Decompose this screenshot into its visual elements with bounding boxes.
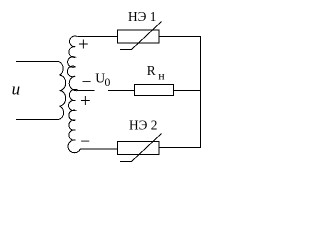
resistor Rn body: [135, 85, 174, 96]
wire NE1 to right bus: [159, 36, 201, 38]
thermistor NE1 foot: [120, 49, 132, 51]
svg-text:НЭ 2: НЭ 2: [129, 117, 157, 132]
wire Rn to right bus: [174, 90, 201, 92]
svg-text:−: −: [82, 71, 92, 91]
wire primary bottom lead: [16, 119, 59, 121]
wire top (secondary to NE1): [78, 36, 118, 38]
svg-text:+: +: [80, 91, 91, 112]
svg-text:0: 0: [105, 76, 111, 89]
thermistor NE1 diagonal stroke: [132, 22, 162, 50]
wire right bus vertical: [200, 37, 202, 148]
svg-text:−: −: [80, 131, 90, 151]
wire NE2 to right bus: [159, 147, 201, 149]
transformer secondary winding upper half: [67, 36, 79, 91]
wire center tap right segment: [108, 90, 135, 92]
thermistor NE2 foot: [120, 161, 132, 163]
transformer secondary winding lower half: [68, 89, 80, 152]
wire center tap left segment: [78, 90, 94, 92]
svg-text:+: +: [78, 35, 89, 56]
thermistor NE2 diagonal stroke: [132, 134, 162, 162]
svg-text:u: u: [12, 80, 21, 99]
transformer primary winding: [59, 62, 66, 120]
svg-text:R: R: [147, 63, 156, 78]
wire bottom (secondary to NE2): [80, 148, 117, 150]
svg-text:НЭ 1: НЭ 1: [128, 9, 156, 24]
svg-text:н: н: [158, 69, 165, 83]
thermistor NE2 body: [118, 142, 160, 155]
thermistor NE1 body: [118, 30, 160, 43]
wire primary top lead: [16, 61, 59, 63]
